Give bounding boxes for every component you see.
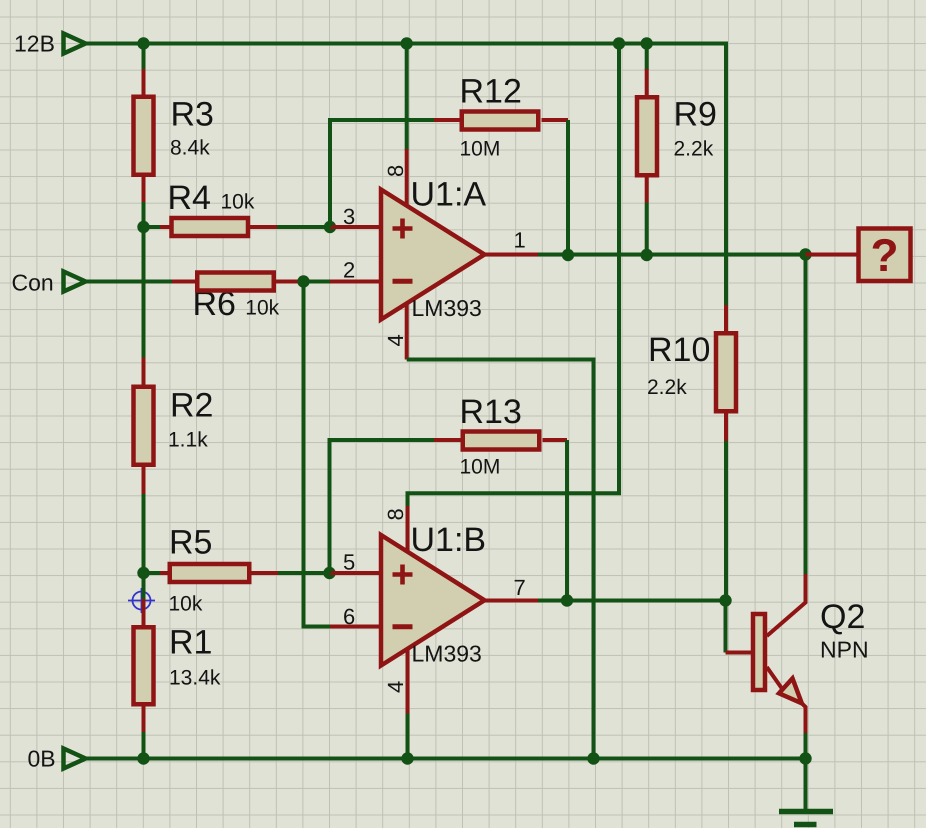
label Con xyxy=(12,270,54,296)
U1:A output pin 1 xyxy=(485,253,539,257)
node R12/output xyxy=(562,249,574,261)
wire 0B rail xyxy=(86,757,806,761)
node 0B/R1 xyxy=(137,752,149,764)
pin 2 stub xyxy=(330,280,381,284)
unknown probe ? box xyxy=(859,229,911,282)
wire output row xyxy=(538,253,857,257)
node B (R4/pin3/R12) xyxy=(324,221,336,233)
pin number 2 xyxy=(343,258,355,283)
svg-text:R1: R1 xyxy=(169,624,212,662)
pin number 6 xyxy=(343,604,355,629)
wire R5 to node E xyxy=(278,571,330,575)
label R10 xyxy=(648,331,710,369)
value 2.2k (R9) xyxy=(674,138,714,161)
value 10M (R12) xyxy=(460,138,501,161)
node R9/output xyxy=(641,249,653,261)
label R6 xyxy=(193,285,236,323)
svg-text:5: 5 xyxy=(343,550,355,575)
resistor R10 xyxy=(716,305,736,601)
label R5 xyxy=(169,524,212,562)
label R3 xyxy=(171,96,214,134)
node E (R5/pin5/R13) xyxy=(323,567,335,579)
resistor R1 xyxy=(134,599,154,732)
node rail/U1:A pin8 xyxy=(401,37,413,49)
svg-text:U1:B: U1:B xyxy=(411,521,487,559)
wire node E up to R13 xyxy=(330,440,435,573)
label 0B xyxy=(28,746,56,772)
svg-text:0B: 0B xyxy=(28,746,56,772)
node C (R6/pin2/pin6 riser) xyxy=(297,275,309,287)
label R13 xyxy=(460,393,522,431)
value 13.4k xyxy=(169,667,221,690)
svg-text:12B: 12B xyxy=(14,31,55,57)
label LM393 (U1:A) xyxy=(412,295,482,321)
label Q2 xyxy=(820,598,865,636)
svg-text:2.2k: 2.2k xyxy=(647,376,687,399)
label R2 xyxy=(170,387,213,425)
wire emitter to 0B rail xyxy=(804,733,808,759)
svg-text:4: 4 xyxy=(383,681,408,693)
svg-text:R9: R9 xyxy=(674,96,717,134)
pin 3 stub xyxy=(330,225,381,229)
pin number 4 (U1:B) xyxy=(383,681,408,693)
origin marker (blue crosshair) xyxy=(128,588,155,613)
svg-text:10k: 10k xyxy=(245,297,279,320)
label NPN xyxy=(820,637,869,663)
node R13/outputB xyxy=(561,594,573,606)
svg-text:U1:A: U1:A xyxy=(411,175,487,213)
op-amp U1:A xyxy=(381,190,485,320)
svg-text:10M: 10M xyxy=(460,456,501,479)
svg-text:NPN: NPN xyxy=(820,637,869,663)
U1:B pin 4 wire to 0B rail xyxy=(406,649,410,759)
svg-text:1: 1 xyxy=(514,228,526,253)
wire R13 down to U1:B output xyxy=(565,440,569,601)
value 8.4k xyxy=(170,137,210,160)
resistor R6 xyxy=(172,273,302,291)
wire node C down to pin6 xyxy=(304,282,331,627)
svg-text:LM393: LM393 xyxy=(412,641,482,667)
svg-text:3: 3 xyxy=(343,204,355,229)
pin 6 stub xyxy=(330,625,381,629)
pin number 3 xyxy=(343,204,355,229)
node rail/U1:B pin8 riser xyxy=(613,37,625,49)
pin number 4 (U1:A) xyxy=(383,334,408,346)
wire U1:B output row xyxy=(538,599,726,603)
svg-text:R13: R13 xyxy=(460,393,522,431)
label 12B xyxy=(14,31,55,57)
resistor R3 xyxy=(134,69,154,202)
node output/collector riser xyxy=(799,248,811,260)
svg-text:6: 6 xyxy=(343,604,355,629)
svg-text:1.1k: 1.1k xyxy=(168,429,208,452)
power terminal 12B xyxy=(64,34,86,54)
value 1.1k xyxy=(168,429,208,452)
label R1 xyxy=(169,624,212,662)
node A (R3/R4/R2) xyxy=(137,221,149,233)
pin number 8 (U1:B) xyxy=(383,508,408,520)
svg-text:8: 8 xyxy=(383,508,408,520)
label LM393 (U1:B) xyxy=(412,641,482,667)
pin 5 stub xyxy=(330,571,382,575)
ground terminal 0B xyxy=(64,749,86,769)
value 10M (R13) xyxy=(460,456,501,479)
pin number 8 (U1:A) xyxy=(383,165,408,177)
input terminal Con xyxy=(64,272,86,292)
svg-text:R10: R10 xyxy=(648,331,710,369)
wire R12 down to output xyxy=(566,120,570,255)
svg-text:2.2k: 2.2k xyxy=(674,138,714,161)
label U1:A xyxy=(411,175,487,213)
svg-text:R12: R12 xyxy=(460,73,522,111)
svg-text:10M: 10M xyxy=(460,138,501,161)
wire node B up to R12 xyxy=(330,120,434,227)
resistor R13 xyxy=(434,432,567,450)
pin number 7 xyxy=(514,575,526,600)
transistor Q2 xyxy=(726,574,806,734)
node rail/R9 xyxy=(641,37,653,49)
resistor R2 xyxy=(134,358,154,495)
wire 12B rail to R10 top xyxy=(86,44,727,307)
resistor R9 xyxy=(637,44,657,256)
wire node D down to R1 xyxy=(142,573,146,599)
svg-text:10k: 10k xyxy=(221,191,255,214)
svg-text:10k: 10k xyxy=(169,593,203,616)
node 0B/pin4B xyxy=(401,752,413,764)
op-amp U1:B xyxy=(381,535,485,666)
svg-text:4: 4 xyxy=(383,334,408,346)
svg-text:13.4k: 13.4k xyxy=(169,667,221,690)
wire R1 to 0B rail xyxy=(142,732,146,759)
wire outputB to Q2 base xyxy=(724,601,728,653)
svg-text:?: ? xyxy=(870,229,898,281)
ground symbol xyxy=(779,759,833,825)
wire rail to R3 xyxy=(142,44,146,70)
svg-text:R3: R3 xyxy=(171,96,214,134)
value 2.2k (R10) xyxy=(647,376,687,399)
resistor R12 xyxy=(434,112,568,130)
wire R3 to node A xyxy=(142,202,146,227)
svg-text:R5: R5 xyxy=(169,524,212,562)
value 10k (R5) xyxy=(169,593,203,616)
svg-text:8.4k: 8.4k xyxy=(170,137,210,160)
U1:A pin 8 wire xyxy=(405,44,409,206)
svg-text:LM393: LM393 xyxy=(412,295,482,321)
svg-text:R4: R4 xyxy=(168,179,211,217)
node D (R2/R5/R1) xyxy=(137,567,149,579)
resistor R5 xyxy=(144,564,279,582)
resistor R4 xyxy=(144,218,278,236)
U1:B pin 8 wire from rail xyxy=(408,44,620,552)
svg-text:Con: Con xyxy=(12,270,54,296)
node 0B/pin4A wire xyxy=(587,752,599,764)
svg-text:R2: R2 xyxy=(170,387,213,425)
wire node A down to R2 xyxy=(142,227,146,358)
node 0B/emitter/ground xyxy=(799,752,811,764)
U1:A pin 4 wire to 0B rail xyxy=(407,303,594,759)
wire R2 to node D xyxy=(142,494,146,573)
output pin to ? terminal xyxy=(806,253,857,257)
label R12 xyxy=(460,73,522,111)
wire R4 to pin3 node xyxy=(277,225,330,229)
pin number 1 xyxy=(514,228,526,253)
pin number 5 xyxy=(343,550,355,575)
wire collector riser xyxy=(804,255,808,575)
svg-text:Q2: Q2 xyxy=(820,598,865,636)
node R10/outputB/base xyxy=(719,594,731,606)
svg-text:8: 8 xyxy=(383,165,408,177)
node rail/R3 xyxy=(137,37,149,49)
wire Con to R6 xyxy=(86,280,173,284)
label U1:B xyxy=(411,521,487,559)
wire node C to pin2 xyxy=(304,280,331,284)
value 10k (R6) xyxy=(245,297,279,320)
value 10k (R4) xyxy=(221,191,255,214)
U1:B output pin 7 xyxy=(485,599,539,603)
svg-text:2: 2 xyxy=(343,258,355,283)
svg-text:7: 7 xyxy=(514,575,526,600)
label R9 xyxy=(674,96,717,134)
label R4 xyxy=(168,179,211,217)
